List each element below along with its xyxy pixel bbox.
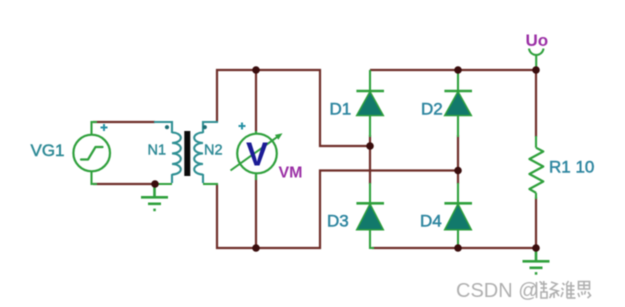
svg-text:VM: VM [279, 165, 303, 182]
wire N2 bottom along VM loop to bridge mid-right node [217, 171, 458, 249]
wire bridge bottom rail [372, 247, 536, 249]
output terminal Uo [529, 49, 544, 71]
diode D2 [444, 70, 472, 137]
wire VM top [255, 70, 257, 132]
ground near transformer [141, 186, 168, 210]
voltage source VG1 [73, 122, 110, 184]
node bridge mid-left (D1-D3) [366, 142, 374, 150]
transformer T1 [154, 122, 218, 184]
transformer core [184, 131, 190, 176]
diode D4 [444, 183, 472, 248]
node bridge mid-right (D2-D4) [454, 167, 462, 175]
polarity dot N2 [203, 125, 207, 129]
svg-text:D3: D3 [327, 212, 349, 231]
N1 top lead [154, 122, 172, 133]
diode D1 [356, 70, 384, 137]
plus sign VM [239, 123, 246, 130]
node D4 bottom [454, 244, 462, 252]
svg-text:VG1: VG1 [31, 141, 65, 160]
svg-text:Uo: Uo [526, 31, 549, 50]
N1 bottom lead [171, 174, 173, 183]
wire bridge top rail [370, 69, 536, 71]
resistor R1 [529, 136, 543, 199]
N2 bottom lead [202, 174, 204, 183]
node transformer primary ground junction [151, 180, 159, 188]
wire R1 bottom [535, 197, 537, 248]
svg-text:D2: D2 [421, 100, 443, 119]
svg-text:D1: D1 [330, 100, 352, 119]
wire bridge left leg middle [369, 135, 371, 184]
polarity dot N1 [165, 125, 169, 129]
node D2 top [454, 66, 462, 74]
node Uo output [532, 66, 540, 74]
svg-text:R1 10: R1 10 [549, 158, 594, 177]
winding N2 [194, 133, 203, 175]
wire N2 top to bridge mid-left node [217, 70, 370, 146]
wire bridge right leg middle [457, 135, 459, 184]
wire VG1 top [93, 121, 155, 123]
N2 top lead [203, 122, 218, 133]
wire R1 top [535, 70, 537, 137]
watermark chinese characters [532, 281, 591, 298]
node VM bottom junction [252, 244, 260, 252]
voltmeter VM [231, 131, 283, 180]
svg-text:N2: N2 [204, 143, 223, 159]
plus sign VG1 [101, 124, 108, 131]
node VM top junction [252, 66, 260, 74]
svg-text:V: V [246, 136, 268, 173]
ground at output [523, 250, 550, 273]
wire VG1 bottom [93, 183, 156, 185]
svg-text:CSDN @: CSDN @ [456, 280, 539, 302]
svg-text:D4: D4 [420, 212, 442, 231]
svg-text:N1: N1 [148, 143, 167, 159]
diode D3 [356, 183, 384, 248]
node output ground junction [532, 244, 540, 252]
wire VM bottom [255, 175, 257, 248]
winding N1 [172, 133, 181, 175]
